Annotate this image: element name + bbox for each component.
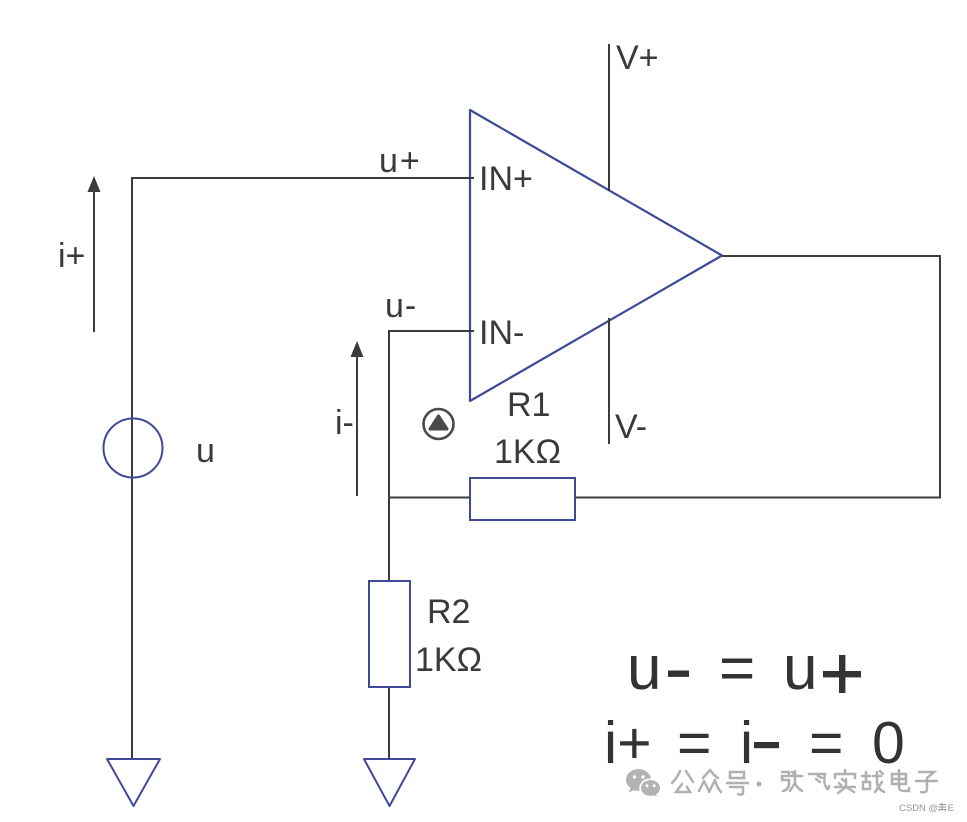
svg-text:u: u (627, 634, 661, 703)
svg-text:1KΩ: 1KΩ (494, 433, 561, 471)
svg-text:i+: i+ (58, 237, 85, 275)
svg-text:i-: i- (335, 404, 354, 442)
svg-text:i: i (740, 710, 753, 776)
svg-text:V+: V+ (616, 39, 659, 77)
svg-text:=: = (677, 710, 711, 776)
svg-text:u: u (196, 432, 215, 470)
svg-text:E: E (948, 803, 954, 814)
svg-text:u: u (783, 634, 817, 703)
svg-text:=: = (809, 710, 843, 776)
svg-text:0: 0 (872, 710, 905, 776)
svg-text:R1: R1 (507, 386, 550, 424)
svg-text:R2: R2 (427, 593, 470, 631)
svg-text:u+: u+ (379, 142, 422, 180)
svg-text:=: = (719, 634, 755, 703)
svg-text:CSDN @: CSDN @ (899, 803, 938, 814)
svg-text:IN-: IN- (479, 314, 524, 352)
svg-text:V-: V- (615, 408, 647, 446)
svg-text:u-: u- (385, 287, 417, 325)
svg-text:1KΩ: 1KΩ (415, 641, 482, 679)
svg-text:i+: i+ (604, 710, 652, 776)
svg-text:IN+: IN+ (479, 160, 533, 198)
